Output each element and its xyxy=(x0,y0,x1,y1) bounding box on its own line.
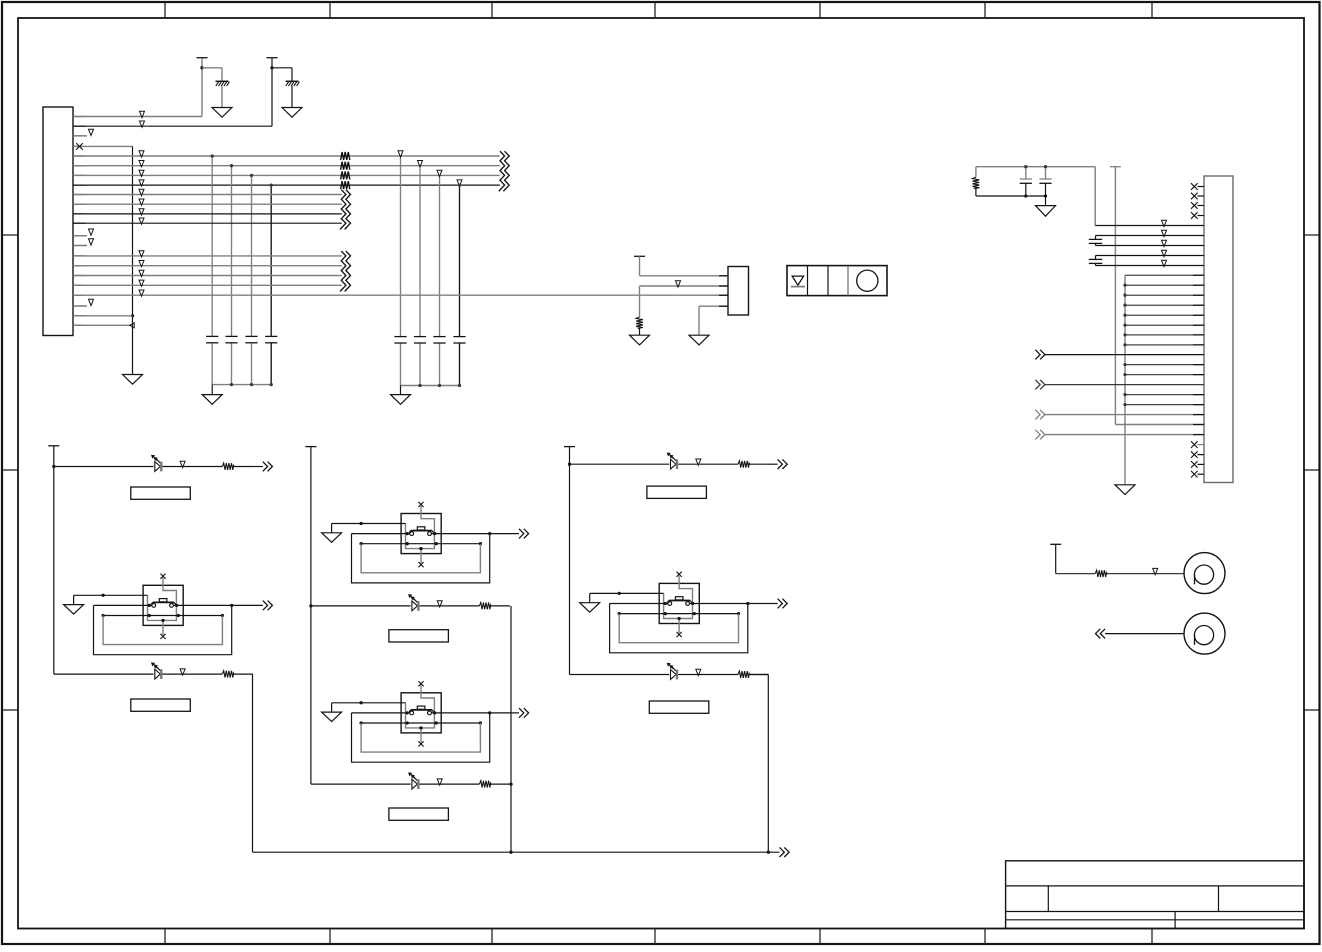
wire J1 pin19 long net to J2 xyxy=(73,294,728,296)
wire R2 to ground xyxy=(639,329,641,335)
label box S4 label 2 xyxy=(649,701,709,713)
test point TP2 inner circle xyxy=(1194,626,1213,645)
wire J1 row group B xyxy=(73,194,342,196)
capacitor C3 xyxy=(245,335,257,337)
resistor R3 xyxy=(1095,570,1107,577)
wire D2 row out xyxy=(234,673,253,675)
wire J3 off-page row2 xyxy=(1045,384,1204,386)
ground triangle S1 xyxy=(64,605,84,615)
no-connect X pin4 xyxy=(76,143,83,150)
connector J2 body xyxy=(728,267,749,316)
U1 circle xyxy=(857,270,878,291)
wire D1 row from rail xyxy=(54,466,154,468)
ground triangle S4 xyxy=(580,603,600,613)
wire D2 row corner down xyxy=(252,674,254,852)
wire bottom bus xyxy=(253,851,780,853)
wire J1 pin2 to chassis ground 2 xyxy=(73,125,272,127)
bank1 bus junctions xyxy=(230,383,233,386)
stub J1 pin13 xyxy=(73,235,87,237)
off-page connector S4 xyxy=(778,599,783,609)
wire ground drop vertical xyxy=(132,146,134,374)
wire D3 row out xyxy=(491,605,510,607)
wire S4 outer loop xyxy=(610,604,748,653)
capacitor C9 xyxy=(1025,167,1027,179)
net labels group A xyxy=(139,151,144,157)
terminal T-bar rail 3 xyxy=(564,446,575,448)
wire J1 pin4 xyxy=(73,145,133,147)
wire S4 row A xyxy=(590,592,664,594)
wire J3 ground bus top xyxy=(1125,274,1204,276)
ground triangle J2 b xyxy=(689,335,709,345)
bank2 bus junctions xyxy=(418,384,421,387)
wire vertical A to J3 xyxy=(1115,424,1204,426)
U1 divider 1 xyxy=(807,266,809,296)
wire D5 row mid xyxy=(678,463,738,465)
U1 polarity triangle xyxy=(792,276,803,285)
wire TP1 drop xyxy=(1055,544,1057,573)
net label D4 row xyxy=(437,779,442,785)
switch S3 bottom pin xyxy=(420,728,422,742)
net label long net xyxy=(139,290,144,296)
switch S1 button contacts xyxy=(152,604,156,608)
wire TP1 row xyxy=(1056,573,1096,575)
ground triangle chassis 2 xyxy=(282,108,302,118)
J1 pin stubs xyxy=(73,116,86,118)
off-page connector D5 row xyxy=(778,459,783,469)
earth hatch symbol 1 xyxy=(216,80,229,82)
wire J3 pin6 xyxy=(1096,235,1205,237)
ground triangle bank2 xyxy=(391,395,411,405)
bank2 top net labels xyxy=(398,151,403,157)
net label pin13 xyxy=(89,229,94,235)
switch S2 bottom pin xyxy=(420,549,422,563)
switch S4 actuator xyxy=(669,600,690,602)
net label pin2 xyxy=(140,121,145,127)
stub J1 pin20 xyxy=(73,305,87,307)
wire J3 ground bus vertical xyxy=(1124,275,1126,485)
border zone ticks top xyxy=(164,2,166,18)
switch S1 actuator xyxy=(153,601,174,603)
wire J1 row group C xyxy=(73,255,342,257)
net label D1 row xyxy=(180,461,185,467)
wire S3 button row right xyxy=(431,712,489,714)
capacitor C2 xyxy=(225,335,237,337)
switch S1 bottom pin xyxy=(162,620,164,634)
connector J1 body xyxy=(43,107,73,336)
off-page connector S2 xyxy=(519,529,524,539)
chassis ground 2 riser xyxy=(271,58,273,127)
no-connect X S1 bottom xyxy=(160,634,165,639)
wire S3 to off-page xyxy=(490,712,519,714)
ground triangle RC xyxy=(1036,206,1056,217)
terminal T-bar rail 2 xyxy=(305,446,316,448)
wire S2 to off-page xyxy=(490,533,519,535)
border zone ticks bottom xyxy=(164,929,166,945)
wire S1 outer loop xyxy=(94,605,232,654)
border zone ticks left xyxy=(2,234,18,236)
wire J3 pin8 xyxy=(1096,255,1205,257)
wire J1 pin21 to ground drop xyxy=(73,315,133,317)
wire S3 inner loop xyxy=(361,723,480,752)
switch S3 inner routing xyxy=(406,685,435,728)
wire S3 row B xyxy=(361,722,480,724)
terminal T-bar 1 xyxy=(197,57,208,59)
capacitor C12 xyxy=(1089,258,1102,260)
wire D4 row from rail xyxy=(311,783,411,785)
no-connect X S2 bottom xyxy=(418,562,423,567)
photodiode D3 row xyxy=(412,601,418,611)
wire D6 row out xyxy=(750,674,769,676)
stub J1 pin3 xyxy=(73,135,87,137)
wire S1 to off-page xyxy=(232,604,263,606)
title block row line 3 xyxy=(1006,919,1304,921)
no-connect X S3 bottom xyxy=(418,741,423,746)
wire J1 pin22 xyxy=(73,324,130,326)
resistor D5 row xyxy=(738,461,750,468)
wire RC bottom xyxy=(976,195,1046,197)
wire S2 outer loop xyxy=(352,534,490,583)
test point TP2 outer circle xyxy=(1184,613,1225,654)
wire J3 pin9 xyxy=(1096,265,1205,267)
U1 divider 3 xyxy=(847,266,849,296)
switch S3 actuator xyxy=(411,709,432,711)
wire D3 row mid xyxy=(420,605,480,607)
net label pin14 xyxy=(89,239,94,245)
switch S4 bottom pin xyxy=(678,619,680,633)
connector J3 body xyxy=(1204,176,1233,483)
no-connect X S1 top xyxy=(160,574,165,579)
U1 divider 2 xyxy=(827,266,829,296)
chassis ground 1 lower stem xyxy=(221,86,223,108)
label box S2 label xyxy=(389,630,449,642)
wire D1 row to off-page xyxy=(253,466,263,468)
wire J2 pin2 xyxy=(640,285,729,287)
wire J1 pin1 to chassis ground 1 xyxy=(73,116,202,118)
wire J3 pin6 jog xyxy=(1095,236,1097,240)
capacitor C7 xyxy=(433,336,445,338)
wire J2 pin4 xyxy=(699,305,728,307)
wire S2 button row right xyxy=(431,533,489,535)
wire J3 off-page row3 xyxy=(1045,414,1204,416)
wire S2 inner loop xyxy=(361,544,480,573)
wire RC output corner xyxy=(1094,167,1096,226)
net label J2 pin2 xyxy=(676,281,681,287)
wire D6 row corner down xyxy=(749,674,768,676)
off-page connector D1 row xyxy=(263,462,268,472)
wire J1 row group A xyxy=(73,155,500,157)
junction bottom bus mid xyxy=(509,851,512,854)
U1 triangle underline xyxy=(791,286,805,288)
wire D6 row mid xyxy=(678,674,738,676)
off-page connector bottom bus xyxy=(780,847,785,857)
capacitor C5 xyxy=(394,336,406,338)
ground triangle S2 xyxy=(322,533,342,543)
net label D6 row xyxy=(696,669,701,675)
wire S1 row B xyxy=(103,615,222,617)
wire S2 row B xyxy=(361,543,480,545)
chassis ground 2 lower stem xyxy=(291,86,293,108)
wire RC ground stem xyxy=(1045,196,1047,206)
capacitor bank1 columns xyxy=(211,156,213,336)
wire J3 pin7 xyxy=(1096,245,1205,247)
wire J3 pin8 jog xyxy=(1095,256,1097,260)
wire S3 row A xyxy=(332,702,406,704)
resistor D1 row xyxy=(222,463,234,470)
off-page connector row 3 xyxy=(1035,410,1040,420)
wire S1 button row right xyxy=(173,604,231,606)
junction chassis 1 xyxy=(200,66,203,69)
title block divider c xyxy=(1174,912,1176,929)
no-connect X S2 top xyxy=(418,502,423,507)
net label D5 row xyxy=(696,459,701,465)
ground triangle bank1 xyxy=(202,395,222,405)
switch S3 outer box xyxy=(401,693,441,733)
wire J2 pin4 down xyxy=(698,306,700,335)
ground triangle J2 a xyxy=(630,335,650,345)
photodiode D2 row xyxy=(155,669,161,679)
resistor D4 row xyxy=(479,781,491,788)
terminal T-bar right xyxy=(1110,166,1121,168)
switch S1 inner routing xyxy=(148,578,177,621)
wire J3 pin7 jog xyxy=(1095,243,1097,245)
ferrite bead FB4 xyxy=(341,181,350,189)
supply rail 1 xyxy=(53,446,55,674)
switch S2 outer box xyxy=(401,514,441,554)
chassis ground 1 riser xyxy=(201,58,203,117)
wire S2 row A xyxy=(332,523,406,525)
ground lead S3 xyxy=(331,703,333,712)
capacitor C1 xyxy=(206,335,218,337)
net label TP1 xyxy=(1153,568,1158,574)
terminal T-bar J2 xyxy=(634,255,645,257)
J2 pin stubs xyxy=(719,275,728,277)
stub J1 pin14 xyxy=(73,245,87,247)
net label pin1 xyxy=(140,111,145,117)
resistor D6 row xyxy=(738,671,750,678)
net label D2 row xyxy=(180,669,185,675)
supply rail 3 xyxy=(569,447,571,675)
terminal T-bar rail 1 xyxy=(48,445,59,447)
wire S2 button row left xyxy=(352,533,410,535)
wire RC left lower xyxy=(975,189,977,196)
wire J2 pin2 down xyxy=(639,286,641,317)
border zone ticks right xyxy=(1304,234,1320,236)
capacitor C4 xyxy=(265,335,277,337)
earth hatch symbol 2 xyxy=(286,80,299,82)
wire D2 row mid xyxy=(163,673,223,675)
net label pin20 xyxy=(89,299,94,305)
supply rail 2 xyxy=(310,447,312,784)
off-page connector row 2 xyxy=(1035,380,1040,390)
switch S4 outer box xyxy=(659,583,699,623)
switch S3 button contacts xyxy=(410,711,414,715)
photodiode D5 row xyxy=(671,459,677,469)
label box S1 label xyxy=(131,487,191,499)
wire S4 button row right xyxy=(690,603,748,605)
wire D4 row mid xyxy=(420,783,480,785)
switch S1 outer box xyxy=(143,585,183,625)
test point TP1 outer circle xyxy=(1184,553,1225,594)
ground triangle S3 xyxy=(322,712,342,722)
wire J3 pin5 from RC xyxy=(1095,225,1204,227)
chassis ground 1 branch xyxy=(202,67,222,69)
switch S2 actuator xyxy=(411,530,432,532)
ferrite bead FB1 xyxy=(341,152,350,160)
wire S1 button row left xyxy=(94,604,152,606)
label box S4 label xyxy=(647,486,707,498)
resistor D2 row xyxy=(222,671,234,678)
off-page connector group B xyxy=(340,190,346,230)
wire D3 row corner down xyxy=(510,606,512,852)
wire D1 row out xyxy=(234,466,253,468)
net label D3 row xyxy=(437,601,442,607)
wire J3 off-page row1 xyxy=(1045,354,1204,356)
wire TP1 row right xyxy=(1107,573,1184,575)
terminal T-bar TP1 xyxy=(1050,543,1061,545)
switch S2 inner routing xyxy=(406,506,435,549)
net labels group B xyxy=(139,189,144,195)
wire J3 pin9 jog xyxy=(1095,263,1097,265)
wire S4 inner loop xyxy=(619,614,738,643)
bank2 ground stem xyxy=(400,386,402,395)
indicator U1 body xyxy=(787,266,887,296)
junction ground drop xyxy=(131,314,134,317)
wire J2 pin1 xyxy=(640,275,729,277)
switch S2 button contacts xyxy=(410,532,414,536)
title block row line 1 xyxy=(1006,885,1304,887)
junction chassis 2 xyxy=(270,66,273,69)
switch S4 inner routing xyxy=(664,576,693,619)
junction bottom bus right xyxy=(767,851,770,854)
junction rail2 xyxy=(309,604,312,607)
junction rail1 row1 xyxy=(52,465,55,468)
net labels J3 group xyxy=(1162,220,1167,226)
capacitor C11 xyxy=(1089,238,1102,240)
off-page connector TP2 xyxy=(1096,629,1101,639)
off-page connector row 1 xyxy=(1035,350,1040,360)
ground triangle J3 xyxy=(1115,485,1135,495)
ground lead S4 xyxy=(589,593,591,602)
wire entry triangle pin22 xyxy=(130,323,134,328)
ground triangle chassis 1 xyxy=(212,108,232,118)
switch S4 button contacts xyxy=(668,602,672,606)
junction D4 row xyxy=(509,782,512,785)
photodiode D4 row xyxy=(412,779,418,789)
terminal T-bar 2 xyxy=(267,57,278,59)
capacitor bank2 columns xyxy=(400,156,402,337)
no-connect X S4 bottom xyxy=(677,632,682,637)
wire S3 outer loop xyxy=(352,713,490,762)
title block divider b xyxy=(1218,886,1220,912)
wire RC left upper xyxy=(975,167,977,178)
net labels group C xyxy=(139,251,144,257)
photodiode D6 row xyxy=(671,670,677,680)
junction rail3 row1 xyxy=(568,463,571,466)
J3 pin stubs xyxy=(1193,274,1204,276)
off-page connector S3 xyxy=(519,708,524,718)
ferrite bead FB2 xyxy=(341,162,350,170)
off-page connector group A right xyxy=(499,151,505,191)
bank1 ground bus xyxy=(212,384,271,386)
resistor R1 xyxy=(973,177,980,189)
off-page connector row 4 xyxy=(1035,430,1040,440)
ferrite bead FB3 xyxy=(341,171,350,179)
wire TP2 row xyxy=(1105,633,1184,635)
wire J2 pin3 stub xyxy=(713,294,728,296)
wire J3 ground bus rows xyxy=(1125,284,1204,286)
off-page connector S1 xyxy=(263,601,268,611)
no-connect X S3 top xyxy=(418,681,423,686)
label box S1 label 2 xyxy=(131,699,191,711)
test point TP2 tail xyxy=(1194,635,1196,645)
wire vertical A xyxy=(1114,167,1116,425)
off-page connector group C xyxy=(340,251,346,291)
wire D5 row to off-page xyxy=(769,463,778,465)
wire D4 row out xyxy=(491,783,510,785)
ground triangle left drop xyxy=(123,375,143,385)
junction bank2 col4 xyxy=(458,183,461,186)
label box S3 label xyxy=(389,808,449,820)
wire S4 row B xyxy=(619,613,738,615)
wire S1 inner loop xyxy=(103,616,222,645)
title block outline xyxy=(1006,861,1304,929)
capacitor C10 xyxy=(1045,167,1047,179)
no-connect X S4 top xyxy=(677,572,682,577)
resistor R2 vertical xyxy=(636,317,643,329)
test point TP1 inner circle xyxy=(1194,565,1213,584)
wire D2 row from rail xyxy=(54,673,154,675)
wire D3 row from rail xyxy=(311,605,411,607)
wire D5 row from rail xyxy=(570,463,670,465)
resistor D3 row xyxy=(479,603,491,610)
no-connect stubs J3 top xyxy=(1198,186,1205,188)
no-connect stubs J3 bottom xyxy=(1198,444,1205,446)
capacitor C6 xyxy=(414,336,426,338)
photodiode D1 row xyxy=(155,462,161,472)
ground lead S1 xyxy=(73,595,75,604)
wire J2 riser xyxy=(639,256,641,276)
wire J3 off-page row4 xyxy=(1045,434,1204,436)
capacitor C8 xyxy=(453,336,465,338)
wire D5 row out xyxy=(750,463,769,465)
title block row line 2 xyxy=(1006,911,1304,913)
bank1 ground stem xyxy=(211,385,213,395)
bank2 ground bus xyxy=(401,385,460,387)
wire S1 row A xyxy=(74,594,148,596)
wire S3 button row left xyxy=(352,712,410,714)
chassis ground 2 branch xyxy=(272,67,292,69)
wire S4 to off-page xyxy=(748,603,778,605)
wire D1 row mid xyxy=(163,466,223,468)
title block divider a xyxy=(1047,886,1049,912)
wire D6 row from rail xyxy=(570,674,670,676)
net label pin3 xyxy=(89,129,94,135)
wire S4 button row left xyxy=(610,603,668,605)
ground lead S2 xyxy=(331,524,333,533)
wire RC top xyxy=(976,166,1095,168)
test point TP1 tail xyxy=(1194,574,1196,584)
